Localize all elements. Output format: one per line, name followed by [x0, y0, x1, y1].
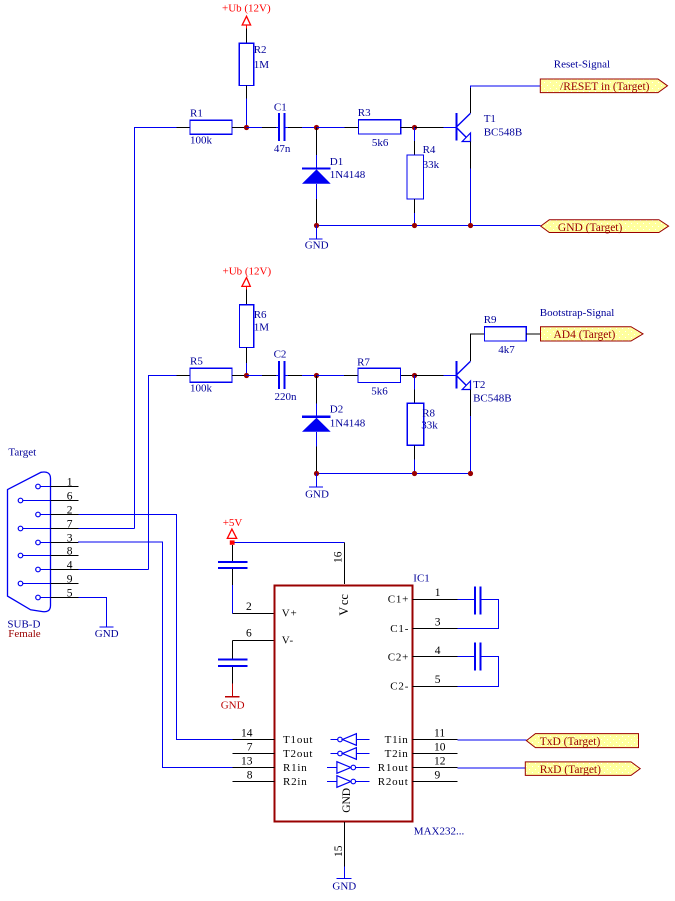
capacitor C2+/C2- external: [458, 643, 499, 687]
svg-text:R1in: R1in: [283, 762, 308, 774]
flag GND (Target): [541, 220, 669, 234]
wire node A to C1: [247, 127, 263, 129]
svg-text:4: 4: [67, 560, 73, 572]
svg-text:15: 15: [333, 845, 345, 857]
svg-text:D1: D1: [330, 156, 343, 168]
svg-text:4: 4: [435, 645, 441, 657]
svg-text:3: 3: [435, 616, 441, 628]
pin 5 C2-: [390, 674, 457, 693]
svg-text:2: 2: [67, 505, 73, 517]
pin 9 R2out: [378, 770, 458, 789]
wire R2 to node A: [246, 99, 248, 128]
svg-text:R2: R2: [254, 44, 267, 56]
svg-text:5: 5: [435, 674, 441, 686]
svg-text:Target: Target: [8, 447, 36, 459]
pin 14 T1out: [233, 728, 314, 747]
svg-text:IC1: IC1: [413, 572, 430, 584]
svg-text:TxD (Target): TxD (Target): [540, 736, 601, 748]
svg-text:5k6: 5k6: [371, 386, 388, 398]
diode D2 1N4148: [302, 376, 366, 474]
flag /RESET in (Target): [540, 79, 667, 93]
svg-text:1M: 1M: [254, 59, 270, 71]
svg-text:7: 7: [247, 742, 253, 754]
svg-text:R6: R6: [254, 309, 267, 321]
connector pin 8: [18, 546, 78, 558]
inverter T1 (points left): [330, 734, 369, 746]
svg-text:7: 7: [67, 519, 73, 531]
svg-text:R7: R7: [357, 357, 370, 369]
pin 10 T2in: [385, 742, 458, 761]
wire pin4 to section 2 input: [79, 569, 149, 571]
svg-text:8: 8: [67, 546, 73, 558]
pin 16 Vcc: [333, 543, 352, 616]
node F junction: [412, 373, 417, 378]
IC1 MAX232 box: [275, 586, 413, 822]
pin 15 GND bottom: [333, 822, 345, 879]
wire node D to C2: [247, 375, 263, 377]
svg-text:1N4148: 1N4148: [330, 418, 366, 430]
svg-text:T2out: T2out: [283, 748, 313, 760]
wire left net to R5: [149, 376, 177, 570]
wire pin2 to IC T1out: [79, 515, 233, 740]
wire C2 to node E: [302, 375, 317, 377]
resistor R6 1M: [240, 289, 270, 363]
wire pin3 to IC R1in: [78, 542, 233, 768]
wire node E to R7: [317, 375, 344, 377]
ground GND section 1: [305, 226, 329, 252]
wire V- to capacitor: [233, 640, 275, 642]
svg-text:GND: GND: [95, 628, 119, 640]
power +Ub (12V) supply symbol, section 2: [223, 266, 272, 290]
svg-text:220n: 220n: [275, 391, 298, 403]
svg-text:R3: R3: [358, 107, 371, 119]
svg-text:T1out: T1out: [283, 734, 313, 746]
svg-text:Female: Female: [8, 628, 40, 640]
wire +5V to Vcc pin 16: [235, 542, 345, 544]
svg-text:33k: 33k: [421, 420, 438, 432]
diode D1 1N4148: [302, 128, 366, 226]
resistor R4 33k: [407, 128, 440, 226]
pin 7 T2out: [233, 742, 314, 761]
gnd row wire section 1: [317, 225, 541, 227]
svg-text:GND (Target): GND (Target): [558, 222, 623, 234]
node D junction: [244, 373, 249, 378]
wire node B to R3: [317, 127, 345, 129]
capacitor at V+: [218, 545, 275, 614]
svg-text:MAX232...: MAX232...: [414, 826, 465, 838]
junction D1-gnd: [314, 223, 319, 228]
svg-text:6: 6: [67, 491, 73, 503]
svg-text:R1out: R1out: [378, 762, 409, 774]
svg-text:BC548B: BC548B: [484, 127, 523, 139]
pin 1 C1+: [388, 587, 458, 606]
junction T2-gnd: [468, 471, 473, 476]
flag RxD (Target): [525, 762, 640, 776]
svg-text:RxD (Target): RxD (Target): [540, 764, 601, 776]
ground GND at connector: [95, 627, 119, 640]
wire pin7 to section 1 input: [79, 528, 135, 530]
flag AD4 (Target): [541, 327, 644, 341]
resistor R3 5k6: [345, 107, 415, 149]
resistor R5 100k: [177, 356, 247, 395]
svg-text:2: 2: [246, 601, 252, 613]
svg-text:Vcc: Vcc: [337, 594, 351, 616]
svg-text:16: 16: [333, 551, 345, 563]
svg-text:GND: GND: [221, 699, 245, 711]
junction D2-gnd: [314, 471, 319, 476]
connector pin 3: [36, 533, 79, 545]
svg-text:4k7: 4k7: [498, 344, 515, 356]
transistor T2 BC548B: [443, 334, 511, 416]
svg-text:GND: GND: [332, 880, 356, 892]
svg-text:C2+: C2+: [388, 651, 409, 663]
pin 12 R1out: [378, 756, 458, 775]
ground GND below IC: [332, 879, 356, 893]
ground GND section 2: [305, 474, 329, 501]
pin 4 C2+: [388, 645, 458, 664]
svg-text:47n: 47n: [274, 143, 291, 155]
wire node F to T2 base: [415, 375, 444, 377]
svg-text:Bootstrap-Signal: Bootstrap-Signal: [540, 307, 615, 319]
svg-text:T2: T2: [473, 379, 485, 391]
resistor R9 4k7: [484, 314, 541, 356]
svg-text:R9: R9: [484, 314, 497, 326]
power +Ub (12V) supply symbol, section 1: [222, 2, 271, 28]
svg-text:Reset-Signal: Reset-Signal: [554, 59, 610, 71]
wire T2 emitter to gnd row: [470, 416, 472, 474]
capacitor at V-: [218, 660, 248, 684]
svg-text:BC548B: BC548B: [473, 393, 512, 405]
pin 13 R1in: [233, 756, 308, 775]
resistor R1 100k: [177, 108, 247, 147]
svg-text:C1: C1: [274, 102, 287, 114]
svg-text:R2in: R2in: [283, 776, 308, 788]
wire left net to R1: [135, 128, 177, 529]
svg-text:R5: R5: [190, 356, 203, 368]
svg-text:+Ub (12V): +Ub (12V): [222, 2, 271, 14]
pin 8 R2in: [233, 770, 308, 789]
node C junction: [412, 125, 417, 130]
resistor R2 1M: [239, 29, 269, 99]
svg-text:5: 5: [67, 588, 73, 600]
svg-text:12: 12: [434, 756, 446, 768]
svg-text:1M: 1M: [254, 322, 270, 334]
svg-text:R4: R4: [423, 144, 436, 156]
node A junction: [244, 125, 249, 130]
svg-text:/RESET in (Target): /RESET in (Target): [560, 81, 650, 93]
power +5V supply symbol: [223, 517, 243, 545]
svg-text:D2: D2: [330, 404, 343, 416]
svg-text:6: 6: [246, 628, 252, 640]
wire pin5 to gnd: [79, 598, 107, 627]
connector pin 2: [36, 505, 79, 517]
svg-text:R2out: R2out: [378, 776, 409, 788]
svg-text:100k: 100k: [190, 383, 213, 395]
svg-text:1: 1: [435, 587, 441, 599]
gnd row wire section 2: [317, 473, 471, 475]
inverter T2 (points left): [330, 748, 369, 760]
inverter R1 (points right): [327, 762, 369, 774]
inverter R2 (points right): [327, 776, 369, 788]
connector pin 6: [18, 491, 78, 503]
svg-text:+Ub (12V): +Ub (12V): [223, 266, 272, 278]
svg-text:100k: 100k: [190, 135, 213, 147]
svg-text:33k: 33k: [423, 159, 440, 171]
svg-text:10: 10: [434, 742, 446, 754]
svg-text:C1+: C1+: [388, 594, 409, 606]
svg-text:T2in: T2in: [385, 748, 409, 760]
wire T1in to TxD flag: [458, 739, 527, 741]
wire C1 to node B: [302, 127, 317, 129]
svg-text:V-: V-: [282, 635, 294, 647]
svg-text:T1: T1: [484, 113, 496, 125]
wire T1 collector to /RESET flag: [471, 86, 541, 88]
wire node C to T1 base: [415, 127, 444, 129]
node E junction: [314, 373, 319, 378]
svg-text:GND: GND: [305, 240, 329, 252]
capacitor C2 220n: [262, 349, 302, 403]
resistor R8 33k: [407, 376, 438, 474]
svg-text:C1-: C1-: [390, 623, 409, 635]
ground GND red below V- capacitor: [221, 683, 245, 711]
connector pin 7: [18, 519, 78, 531]
svg-text:5k6: 5k6: [372, 137, 389, 149]
pin 3 C1-: [390, 616, 457, 635]
svg-text:C2: C2: [274, 349, 287, 361]
connector pin 5: [36, 588, 79, 600]
junction R4-gnd: [412, 223, 417, 228]
wire R6 to node D: [246, 363, 248, 376]
svg-text:GND: GND: [341, 788, 353, 813]
svg-text:1: 1: [67, 477, 73, 489]
svg-text:T1in: T1in: [385, 734, 409, 746]
svg-text:3: 3: [67, 533, 73, 545]
svg-text:R8: R8: [422, 408, 435, 420]
capacitor C1 47n: [262, 102, 302, 156]
svg-text:+5V: +5V: [223, 517, 243, 529]
svg-text:9: 9: [435, 770, 441, 782]
connector pin 9: [18, 574, 78, 586]
svg-text:GND: GND: [305, 489, 329, 501]
svg-text:14: 14: [241, 728, 253, 740]
svg-text:13: 13: [241, 756, 253, 768]
transistor T1 BC548B: [443, 88, 522, 168]
svg-text:11: 11: [434, 728, 445, 740]
resistor R7 5k6: [344, 357, 415, 398]
svg-text:9: 9: [67, 574, 73, 586]
connector pin 1: [36, 477, 79, 489]
capacitor C1+/C1- external: [458, 586, 499, 628]
svg-text:R1: R1: [190, 108, 203, 120]
connector pin 4: [36, 560, 79, 572]
wire T1 emitter to gnd row: [470, 168, 472, 225]
svg-text:AD4 (Target): AD4 (Target): [554, 329, 616, 341]
node B junction: [314, 125, 319, 130]
svg-text:V+: V+: [282, 608, 298, 620]
pin 11 T1in: [385, 728, 458, 747]
svg-text:C2-: C2-: [390, 681, 409, 693]
junction T1-gnd: [468, 223, 473, 228]
wire R1out to RxD flag: [458, 767, 526, 769]
svg-text:1N4148: 1N4148: [330, 169, 366, 181]
junction R8-gnd: [412, 471, 417, 476]
svg-text:8: 8: [247, 770, 253, 782]
connector SUB-D 9 outline: [8, 472, 51, 612]
flag TxD (Target): [526, 734, 638, 748]
